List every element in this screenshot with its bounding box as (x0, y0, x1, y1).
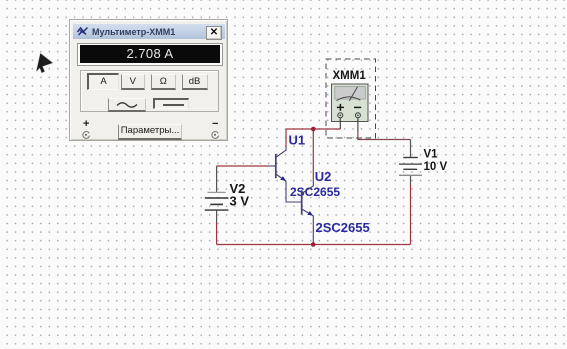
U1 emitter arrow (280, 176, 286, 181)
U2 emitter arrow (307, 211, 313, 215)
button V (121, 74, 146, 90)
multimeter XMM1 body (332, 84, 369, 122)
button A (pressed) (87, 73, 119, 90)
XMM1 pin leads (340, 118, 358, 131)
wire bottom rail up to V1 minus (410, 185, 412, 245)
button group panel (80, 70, 219, 112)
battery V1 plates (399, 158, 422, 176)
XMM1 selection dashed box (326, 59, 376, 138)
mouse cursor (36, 53, 52, 72)
svg-text:10 V: 10 V (424, 161, 448, 173)
svg-text:V1: V1 (424, 149, 439, 161)
button Parameters (118, 124, 182, 140)
window title bar (73, 24, 225, 39)
svg-text:2SC2655: 2SC2655 (316, 220, 370, 235)
button Ohm (151, 74, 176, 90)
reading display 2.708 A (77, 43, 223, 66)
close button (206, 26, 222, 40)
battery V2 plates (205, 192, 229, 210)
transistor U2 (302, 181, 314, 245)
XMM1 needle (349, 87, 357, 101)
junction top node (311, 127, 316, 132)
button dB (182, 74, 208, 90)
minus terminal sign (212, 118, 218, 130)
XMM1 minus terminal (355, 113, 360, 118)
XMM1 plus terminal (338, 113, 343, 118)
minus terminal socket (210, 130, 220, 140)
plus terminal sign (83, 118, 89, 130)
button DC (pressed) (153, 98, 189, 109)
transistor U1 (268, 146, 302, 202)
XMM1 minus sign (354, 106, 361, 108)
svg-text:3 V: 3 V (230, 194, 250, 209)
battery V1 pin leads (410, 140, 412, 186)
multimeter XMM1 instrument window (69, 19, 228, 141)
XMM1 meter face (335, 87, 366, 100)
svg-text:2SC2655: 2SC2655 (290, 185, 340, 199)
svg-text:U2: U2 (315, 169, 332, 184)
wire V2 plus to U1 base (217, 165, 268, 167)
wire XMM1 minus to V1 plus (358, 131, 411, 140)
wire top node down to U2 collector (312, 129, 314, 181)
svg-text:U1: U1 (289, 133, 306, 148)
wire V2 minus down to bottom rail (216, 222, 218, 245)
wire top node to XMM1 plus lead (286, 128, 340, 130)
svg-text:XMM1: XMM1 (333, 70, 367, 82)
battery V2 pin leads (216, 166, 218, 222)
plus terminal socket (81, 130, 91, 140)
junction bottom node (311, 242, 316, 247)
XMM1 plus sign (337, 104, 344, 111)
wire U1 collector up to top node (285, 129, 287, 146)
wire bottom rail (217, 244, 411, 246)
button AC (108, 98, 146, 112)
XMM1 scale arc (337, 97, 361, 101)
